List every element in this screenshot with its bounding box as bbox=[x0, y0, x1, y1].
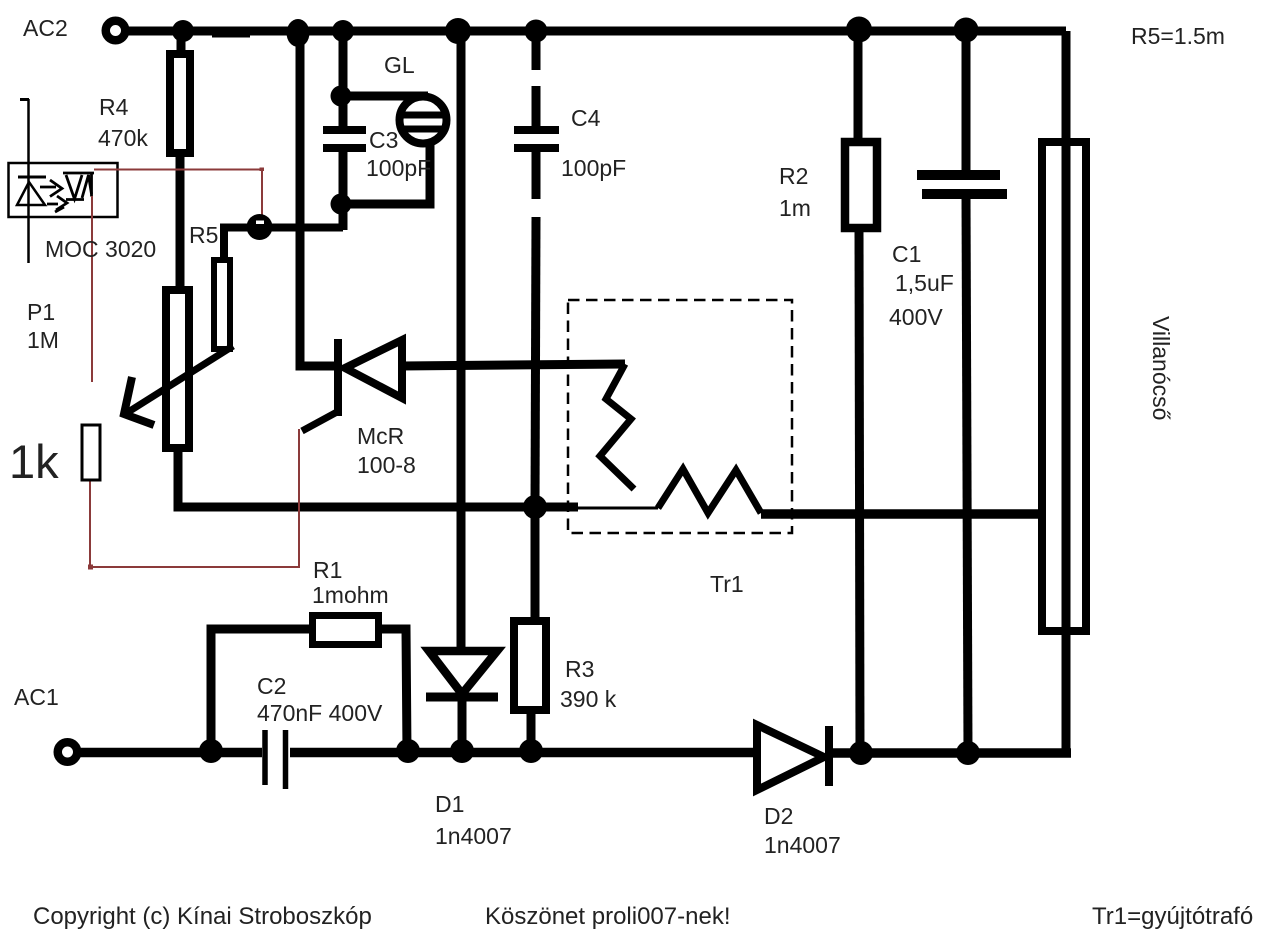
svg-text:D2: D2 bbox=[764, 803, 793, 829]
node bottom D1 bbox=[450, 739, 474, 763]
wire GL top link bbox=[343, 92, 428, 101]
capacitor C2 plate left bbox=[262, 730, 268, 785]
node top x300 bbox=[287, 19, 310, 47]
svg-text:Villanócső: Villanócső bbox=[1148, 316, 1174, 420]
opto MOC3020 triac bottom bar bbox=[66, 198, 84, 201]
red wire corner tick bbox=[260, 168, 265, 172]
capacitor C1 plate top bbox=[917, 170, 1000, 180]
terminal AC1 bbox=[58, 742, 78, 762]
wire P1 bottom lead bbox=[178, 450, 180, 507]
svg-text:R5=1.5m: R5=1.5m bbox=[1131, 23, 1225, 49]
svg-text:R3: R3 bbox=[565, 656, 594, 682]
wire D1 to bottom rail bbox=[458, 697, 467, 752]
lamp GL inner bar 2 bbox=[403, 126, 443, 133]
diode D2 triangle bbox=[757, 725, 824, 790]
potentiometer P1 arrow head bbox=[124, 377, 154, 425]
resistor 1k body bbox=[82, 425, 100, 480]
wire gate rail y508 thin bbox=[578, 507, 658, 510]
diode D1 cathode bar bbox=[426, 693, 498, 702]
wire column x536 seg2 bbox=[532, 86, 541, 129]
svg-text:1,5uF: 1,5uF bbox=[895, 270, 954, 296]
wire GL bottom loop bbox=[343, 142, 430, 204]
svg-text:390 k: 390 k bbox=[560, 686, 617, 712]
node bottom C1 bbox=[956, 741, 980, 765]
svg-text:Copyright (c) Kínai Stroboszkó: Copyright (c) Kínai Stroboszkóp bbox=[33, 903, 372, 930]
node GL bottom bbox=[331, 194, 352, 215]
svg-text:R1: R1 bbox=[313, 557, 342, 583]
node bottom R3 bbox=[519, 739, 543, 763]
flash tube Villanocso body bbox=[1042, 142, 1086, 631]
transformer Tr1 dashed box bbox=[568, 300, 792, 533]
wire C3 bottom to y228 bbox=[339, 148, 348, 230]
resistor R4 bbox=[170, 54, 190, 153]
svg-text:AC2: AC2 bbox=[23, 15, 68, 41]
svg-text:AC1: AC1 bbox=[14, 684, 59, 710]
svg-text:100pF: 100pF bbox=[366, 155, 431, 181]
svg-text:R4: R4 bbox=[99, 94, 129, 120]
opto MOC3020 light arrow 1 bbox=[40, 180, 62, 197]
opto-coupler U1 MOC3020 box bbox=[9, 163, 118, 217]
terminal AC2 bbox=[106, 21, 126, 41]
opto MOC3020 triac top bar bbox=[63, 172, 94, 175]
potentiometer P1 body bbox=[166, 290, 189, 448]
diode D2 cathode bar bbox=[825, 726, 833, 786]
wire column x300 top to thyristor cathode bbox=[300, 32, 339, 366]
wire column x536 seg1 bbox=[532, 32, 541, 70]
wire R3 bottom to rail bbox=[527, 712, 536, 752]
thyristor McR gate lead bbox=[302, 412, 337, 431]
red wire bottom horizontal bbox=[90, 566, 299, 568]
wire bottom rail mid (C2 to D2) bbox=[290, 748, 758, 758]
transformer Tr1 secondary zigzag bbox=[658, 469, 761, 513]
wire secondary out y513 bbox=[761, 509, 1038, 519]
potentiometer P1 wiper arrow shaft bbox=[125, 346, 233, 414]
svg-text:GL: GL bbox=[384, 52, 415, 78]
svg-text:C1: C1 bbox=[892, 241, 921, 267]
opto MOC3020 light arrow 2 bbox=[47, 196, 67, 212]
svg-text:1n4007: 1n4007 bbox=[435, 823, 512, 849]
svg-text:1n4007: 1n4007 bbox=[764, 832, 841, 858]
red wire 1k to bottom bbox=[89, 480, 91, 568]
svg-text:P1: P1 bbox=[27, 299, 55, 325]
red wire triac bottom down bbox=[91, 196, 93, 382]
wire R4 top stub bbox=[177, 31, 186, 52]
wire R1 right lead bbox=[382, 629, 407, 752]
red wire corner tick 2 bbox=[88, 565, 93, 570]
opto MOC3020 triac triangle down bbox=[66, 175, 82, 199]
capacitor C3 plate top bbox=[323, 126, 366, 134]
capacitor C4 plate bottom bbox=[514, 144, 559, 152]
svg-text:1m: 1m bbox=[779, 195, 811, 221]
node top C1 bbox=[954, 18, 979, 43]
resistor R1 body bbox=[313, 616, 379, 645]
node top x461 bbox=[445, 18, 471, 44]
node top R4 bbox=[172, 20, 194, 42]
lamp GL circle bbox=[400, 97, 447, 144]
wire R4 to P1 bbox=[176, 155, 185, 288]
diode D1 triangle bbox=[429, 651, 497, 694]
capacitor C2 plate right bbox=[283, 730, 289, 789]
svg-text:D1: D1 bbox=[435, 791, 464, 817]
wire column x536 seg4 bbox=[535, 217, 536, 507]
svg-text:C3: C3 bbox=[369, 127, 398, 153]
node top x536 bbox=[525, 20, 548, 43]
opto MOC3020 pin top tick bbox=[20, 98, 29, 101]
transformer Tr1 primary zigzag bbox=[600, 364, 634, 489]
red wire triac top horizontal bbox=[94, 169, 262, 171]
wire C1 top lead bbox=[962, 30, 971, 173]
wire retouch stroke under top rail bbox=[212, 32, 250, 38]
opto MOC3020 triac triangle up bbox=[82, 175, 92, 198]
wire R1 left lead bbox=[211, 629, 309, 752]
svg-text:Tr1=gyújtótrafó: Tr1=gyújtótrafó bbox=[1092, 903, 1253, 930]
capacitor C3 plate bottom bbox=[323, 144, 366, 152]
wire top rail AC2 to right corner bbox=[126, 27, 1066, 36]
node GL top bbox=[331, 86, 352, 107]
node top x343 bbox=[332, 20, 354, 42]
wire column x536 seg3 bbox=[532, 148, 541, 199]
svg-text:C2: C2 bbox=[257, 673, 286, 699]
svg-text:470nF 400V: 470nF 400V bbox=[257, 700, 383, 726]
opto MOC3020 pin line vertical bbox=[27, 99, 30, 263]
svg-text:100-8: 100-8 bbox=[357, 452, 416, 478]
node top R2 bbox=[846, 17, 872, 43]
svg-text:McR: McR bbox=[357, 423, 404, 449]
resistor R3 body bbox=[514, 621, 546, 710]
wire gate rail y507 thick bbox=[174, 503, 578, 512]
WIRES-TOP bbox=[80, 27, 1071, 753]
red wire down to node dot bbox=[261, 170, 263, 222]
opto MOC3020 triac terminal line bbox=[90, 173, 93, 197]
wire right vertical through flash tube bbox=[1062, 31, 1071, 753]
opto MOC3020 LED cathode bar bbox=[18, 176, 46, 179]
svg-text:MOC 3020: MOC 3020 bbox=[45, 236, 156, 262]
wire R2 top lead bbox=[854, 27, 863, 142]
node gate ring bbox=[247, 214, 273, 240]
capacitor C4 plate top bbox=[514, 126, 559, 134]
wire thyristor anode to Tr1 primary bbox=[401, 364, 625, 366]
wire x535 to R3 top bbox=[531, 507, 540, 619]
wire column x461 top to D1 bbox=[457, 32, 466, 651]
wire C1 bottom lead to rail bbox=[966, 196, 968, 753]
svg-text:Köszönet proli007-nek!: Köszönet proli007-nek! bbox=[485, 903, 730, 930]
svg-text:1mohm: 1mohm bbox=[312, 582, 389, 608]
svg-text:100pF: 100pF bbox=[561, 155, 626, 181]
svg-text:1M: 1M bbox=[27, 327, 59, 353]
resistor R5 body bbox=[214, 260, 230, 349]
node bottom R1 right bbox=[396, 739, 420, 763]
wire R2 bottom lead to rail bbox=[859, 229, 860, 753]
svg-text:C4: C4 bbox=[571, 105, 601, 131]
node trigger x535 bbox=[523, 495, 547, 519]
RED-WIRES bbox=[88, 168, 299, 570]
opto MOC3020 LED triangle bbox=[17, 182, 45, 205]
svg-text:R5: R5 bbox=[189, 222, 218, 248]
thyristor McR triangle bbox=[345, 340, 402, 398]
svg-text:Tr1: Tr1 bbox=[710, 571, 744, 597]
red wire up to gate bbox=[298, 429, 300, 568]
wire R5 top bend bbox=[220, 228, 343, 262]
MOC-OPTO bbox=[9, 99, 118, 263]
wire bottom rail left (AC1 to C2) bbox=[80, 748, 262, 758]
svg-text:1k: 1k bbox=[9, 435, 59, 488]
capacitor C1 plate bottom bbox=[922, 189, 1007, 199]
svg-text:R2: R2 bbox=[779, 163, 808, 189]
thyristor McR cathode bar bbox=[334, 339, 342, 416]
svg-text:400V: 400V bbox=[889, 304, 943, 330]
wire bottom rail right (D2 to corner) bbox=[828, 748, 1071, 758]
wire column x343 to GL/C3 bbox=[339, 32, 348, 129]
resistor R2 body bbox=[845, 142, 877, 228]
node bottom R1 left bbox=[199, 739, 223, 763]
node bottom R2 bbox=[849, 741, 873, 765]
lamp GL inner bar 1 bbox=[403, 112, 444, 119]
svg-text:470k: 470k bbox=[98, 125, 148, 151]
